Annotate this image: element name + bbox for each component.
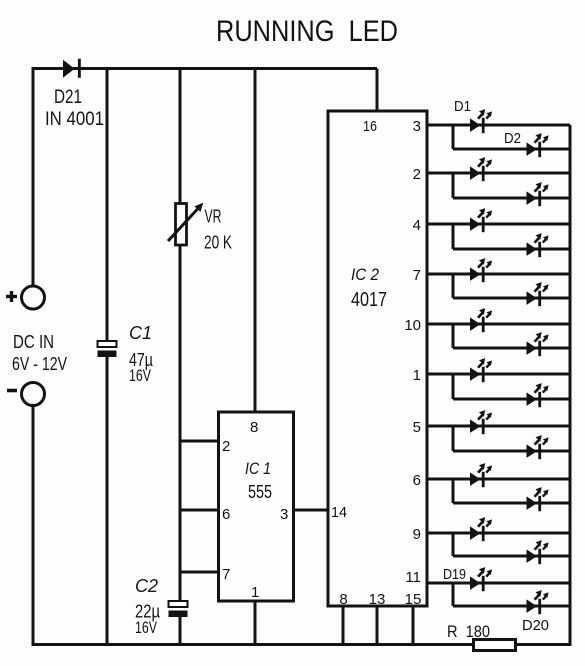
IC1 555 body	[219, 412, 294, 601]
wire IC1 pin2	[179, 440, 219, 443]
wire IC2 pin 3 output row	[427, 124, 570, 127]
wire C2 to ground	[179, 617, 182, 646]
wire IC2 pin 11 output row	[427, 582, 570, 585]
svg-text:6: 6	[222, 506, 230, 523]
wire branch to D10 row	[452, 324, 455, 348]
wire left rail lower	[32, 406, 35, 647]
svg-text:D20: D20	[522, 617, 549, 634]
wire IC2 pin15 to ground	[412, 606, 415, 646]
LED D19	[470, 567, 492, 591]
wire D4 sub row	[453, 197, 570, 200]
svg-text:20 K: 20 K	[204, 233, 232, 253]
LED D10	[527, 332, 549, 356]
wire IC1 pin1 to ground	[254, 601, 257, 646]
wire C1 branch upper	[106, 69, 109, 343]
wire LED common bus	[569, 125, 572, 646]
wire IC1 pin7	[179, 571, 219, 574]
IC2 4017 body	[328, 111, 427, 606]
wire IC1 pin8 supply	[254, 69, 257, 413]
wire branch to D8 row	[452, 274, 455, 298]
LED D11	[470, 358, 492, 382]
wire IC2 pin 1 output row	[427, 373, 570, 376]
LED D2	[527, 133, 549, 157]
svg-text:D21: D21	[54, 87, 82, 108]
svg-text:VR: VR	[205, 207, 222, 227]
wire branch to D14 row	[452, 426, 455, 451]
svg-text:8: 8	[339, 591, 347, 608]
svg-text:6V - 12V: 6V - 12V	[12, 354, 67, 374]
svg-text:R 180: R 180	[447, 622, 490, 641]
LED D3	[470, 157, 492, 181]
svg-text:9: 9	[413, 526, 421, 543]
svg-text:2: 2	[222, 438, 230, 455]
LED D5	[470, 208, 492, 232]
svg-text:8: 8	[250, 419, 258, 436]
wire D20 sub row	[453, 605, 570, 608]
wire IC1 pin3 to IC2 pin14	[294, 509, 329, 512]
svg-text:4017: 4017	[351, 289, 387, 311]
wire branch to D20 row	[452, 583, 455, 606]
wire D6 sub row	[453, 248, 570, 251]
svg-text:16V: 16V	[135, 618, 157, 637]
LED D20	[527, 590, 549, 614]
svg-text:7: 7	[413, 267, 421, 284]
svg-text:1: 1	[251, 584, 259, 601]
terminal minus	[22, 383, 45, 406]
wire IC2 pin 10 output row	[427, 323, 570, 326]
svg-text:555: 555	[248, 482, 272, 502]
wire IC2 pin13 to ground	[376, 606, 379, 646]
svg-text:C1: C1	[129, 323, 152, 343]
svg-text:7: 7	[222, 566, 230, 583]
diode D21	[63, 59, 81, 78]
wire IC2 pin 5 output row	[427, 425, 570, 428]
wire D14 sub row	[453, 450, 570, 453]
svg-text:D19: D19	[443, 566, 466, 583]
svg-text:1: 1	[413, 367, 421, 384]
svg-text:C2: C2	[135, 576, 158, 596]
LED D14	[527, 435, 549, 459]
wire IC2 pin 7 output row	[427, 273, 570, 276]
svg-text:D1: D1	[454, 98, 471, 115]
wire D8 sub row	[453, 297, 570, 300]
LED D16	[527, 487, 549, 511]
LED D8	[527, 282, 549, 306]
svg-text:4: 4	[413, 217, 421, 234]
LED D6	[527, 233, 549, 257]
wire branch to D18 row	[452, 533, 455, 556]
wire branch to D4 row	[452, 173, 455, 198]
svg-text:16: 16	[363, 118, 377, 135]
terminal plus	[22, 286, 45, 309]
svg-text:14: 14	[331, 504, 347, 521]
wire D12 sub row	[453, 398, 570, 401]
capacitor C2	[169, 601, 188, 617]
LED D12	[527, 383, 549, 407]
potentiometer VR	[168, 204, 203, 246]
wire D2 sub row	[453, 148, 570, 151]
svg-text:IN 4001: IN 4001	[45, 109, 104, 130]
wire IC1 pin6	[179, 509, 219, 512]
wire VR branch upper	[179, 69, 182, 205]
resistor R 180	[474, 640, 516, 651]
wire left rail upper	[32, 67, 35, 286]
svg-text:6: 6	[413, 472, 421, 489]
wire IC2 pin8 to ground	[342, 606, 345, 646]
LED D9	[470, 308, 492, 332]
wire VR to C2	[179, 244, 182, 602]
wire D18 sub row	[453, 555, 570, 558]
wire bottom ground rail	[32, 643, 571, 646]
svg-text:11: 11	[405, 569, 421, 586]
svg-text:DC IN: DC IN	[13, 332, 54, 352]
label plus sign	[6, 291, 17, 302]
wire IC2 pin16 supply	[376, 69, 379, 112]
svg-text:10: 10	[404, 317, 421, 334]
LED D1	[470, 109, 492, 133]
svg-text:3: 3	[280, 506, 288, 523]
svg-text:3: 3	[413, 118, 421, 135]
LED D4	[527, 182, 549, 206]
LED D17	[470, 517, 492, 541]
wire branch to D16 row	[452, 479, 455, 503]
svg-text:D2: D2	[504, 130, 521, 147]
wire IC2 pin 4 output row	[427, 223, 570, 226]
wire branch to D12 row	[452, 374, 455, 399]
svg-text:IC 1: IC 1	[245, 459, 271, 478]
svg-text:RUNNING LED: RUNNING LED	[216, 15, 398, 48]
capacitor C1	[98, 341, 117, 357]
wire IC2 pin 6 output row	[427, 478, 570, 481]
LED D15	[470, 463, 492, 487]
wire branch to D2 row	[452, 125, 455, 149]
LED D7	[470, 258, 492, 282]
wire IC2 pin 9 output row	[427, 532, 570, 535]
wire IC2 pin 2 output row	[427, 172, 570, 175]
svg-text:2: 2	[413, 166, 421, 183]
svg-text:13: 13	[369, 591, 386, 608]
wire top rail	[33, 67, 377, 70]
LED D13	[470, 410, 492, 434]
wire D10 sub row	[453, 347, 570, 350]
svg-text:IC 2: IC 2	[351, 265, 379, 284]
LED D18	[527, 540, 549, 564]
svg-text:5: 5	[413, 419, 421, 436]
wire C1 branch lower	[106, 357, 109, 646]
svg-text:15: 15	[405, 591, 422, 608]
wire D16 sub row	[453, 502, 570, 505]
label minus sign	[7, 389, 17, 393]
svg-text:16V: 16V	[129, 366, 151, 385]
wire branch to D6 row	[452, 224, 455, 249]
